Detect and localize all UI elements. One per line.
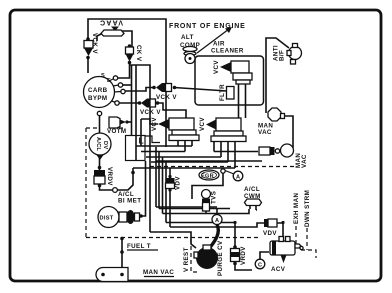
svg-text:VCV: VCV bbox=[199, 117, 206, 131]
svg-text:A: A bbox=[236, 175, 240, 181]
svg-text:PURGE CV: PURGE CV bbox=[217, 240, 224, 276]
svg-text:DIST: DIST bbox=[100, 216, 114, 222]
svg-text:S: S bbox=[101, 73, 105, 79]
svg-text:COMP: COMP bbox=[180, 42, 200, 49]
svg-text:CARB: CARB bbox=[88, 87, 108, 94]
svg-text:AIR: AIR bbox=[213, 41, 225, 48]
svg-text:VAC: VAC bbox=[301, 154, 308, 168]
svg-text:VCK V: VCK V bbox=[91, 33, 98, 54]
svg-text:FLTR: FLTR bbox=[219, 84, 226, 101]
svg-text:ALT: ALT bbox=[181, 34, 194, 41]
svg-text:FRONT OF ENGINE: FRONT OF ENGINE bbox=[169, 23, 246, 30]
svg-text:CLEANER: CLEANER bbox=[211, 48, 244, 55]
svg-text:A: A bbox=[215, 218, 219, 224]
svg-text:EXH MAN: EXH MAN bbox=[293, 193, 300, 224]
svg-text:FUEL T: FUEL T bbox=[127, 243, 151, 250]
svg-text:BI MET: BI MET bbox=[118, 198, 141, 205]
svg-text:VDV: VDV bbox=[263, 230, 277, 237]
svg-text:VRDV: VRDV bbox=[106, 167, 113, 186]
svg-text:EGR: EGR bbox=[201, 174, 214, 180]
svg-text:VCV: VCV bbox=[151, 117, 158, 131]
svg-text:DWN STRM: DWN STRM bbox=[304, 190, 311, 227]
svg-text:VDV: VDV bbox=[175, 176, 182, 190]
svg-text:VOTM: VOTM bbox=[107, 128, 126, 135]
svg-text:TVS: TVS bbox=[211, 191, 218, 204]
svg-text:VCV: VCV bbox=[213, 60, 220, 74]
svg-text:VAC: VAC bbox=[258, 129, 272, 136]
svg-text:VRDV: VRDV bbox=[240, 246, 247, 265]
svg-text:MAN VAC: MAN VAC bbox=[143, 269, 174, 276]
svg-text:VCK V: VCK V bbox=[140, 109, 161, 116]
svg-text:V REST: V REST bbox=[183, 247, 190, 272]
svg-text:B/F: B/F bbox=[279, 50, 286, 61]
svg-text:A/CL: A/CL bbox=[95, 137, 101, 152]
svg-text:BYPM: BYPM bbox=[88, 95, 107, 102]
svg-text:A/CL: A/CL bbox=[244, 186, 260, 193]
svg-text:VCK V: VCK V bbox=[156, 94, 177, 101]
svg-text:CK V: CK V bbox=[135, 45, 142, 62]
svg-text:VAAC: VAAC bbox=[99, 19, 123, 26]
svg-text:L: L bbox=[139, 136, 144, 146]
svg-text:C: C bbox=[258, 263, 262, 269]
svg-text:ACV: ACV bbox=[271, 266, 286, 273]
svg-text:DV: DV bbox=[102, 141, 108, 149]
